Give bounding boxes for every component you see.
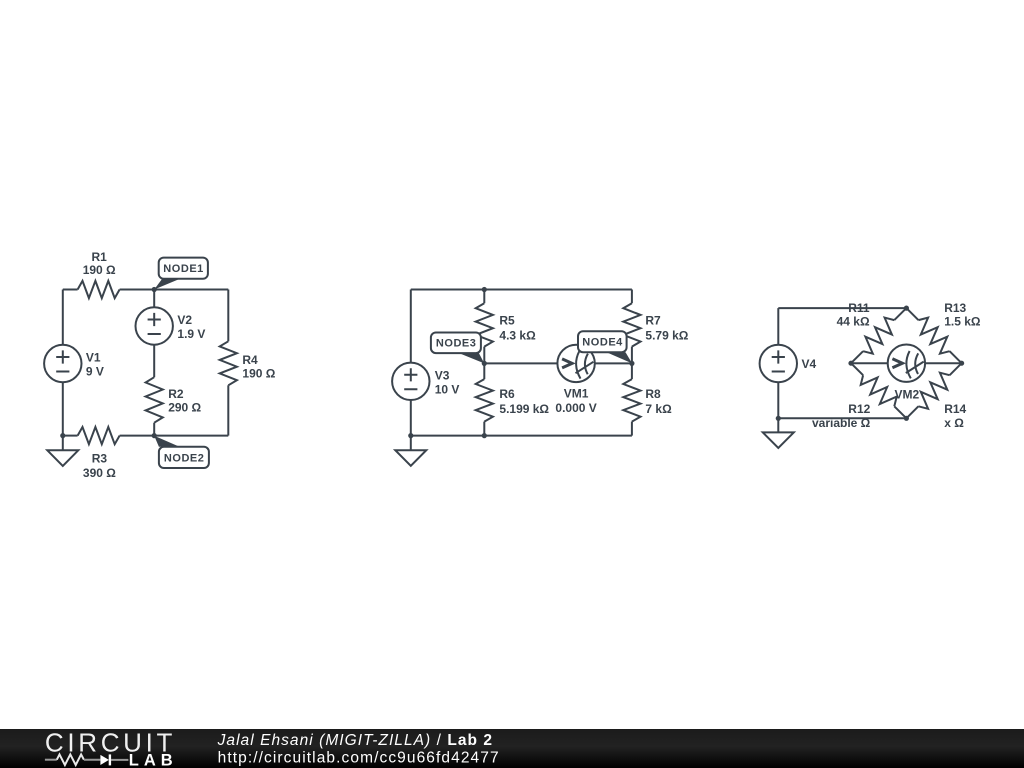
resistor R2 (146, 377, 163, 423)
resistor R13 (906, 308, 961, 363)
svg-text:0.000 V: 0.000 V (555, 401, 596, 415)
svg-text:190 Ω: 190 Ω (242, 367, 275, 381)
svg-text:NODE1: NODE1 (163, 263, 203, 275)
wire (777, 308, 779, 345)
svg-text:4.3 kΩ: 4.3 kΩ (499, 329, 536, 343)
svg-text:5.199 kΩ: 5.199 kΩ (499, 402, 549, 416)
logo resistor glyph (45, 759, 57, 761)
label R14 value (944, 402, 966, 430)
label V3 value (435, 368, 460, 396)
wire (631, 347, 633, 380)
voltmeter VM2 (888, 345, 925, 382)
svg-text:V3: V3 (435, 368, 450, 382)
voltage source V1 (44, 345, 81, 382)
resistor R7 (623, 303, 640, 346)
label R4 value (242, 353, 275, 380)
label R12 value (812, 402, 871, 430)
resistor R8 (623, 379, 640, 422)
wire (63, 289, 78, 291)
svg-text:R8: R8 (645, 387, 661, 401)
wire (631, 422, 633, 436)
node dot: bridge bottom node (904, 416, 909, 421)
svg-text:10 V: 10 V (435, 382, 460, 396)
wire (631, 290, 633, 304)
footer bar (0, 729, 1024, 768)
svg-text:variable Ω: variable Ω (812, 416, 871, 430)
wire (227, 385, 229, 435)
node dot: junction NODE3 (482, 361, 487, 366)
wire (411, 435, 632, 437)
label R1 value (83, 250, 116, 277)
wire (595, 362, 632, 364)
node label NODE1 (154, 258, 208, 290)
svg-text:NODE4: NODE4 (582, 337, 623, 349)
wire (778, 307, 906, 309)
wire (63, 435, 78, 437)
node dot: junction NODE4 (629, 361, 634, 366)
svg-text:R6: R6 (499, 387, 515, 401)
label VM1 value (555, 387, 596, 416)
svg-text:R13: R13 (944, 301, 966, 315)
voltage source V2 (136, 307, 173, 344)
voltmeter VM1 (557, 345, 594, 382)
wire (483, 422, 485, 436)
resistor R5 (476, 303, 493, 346)
svg-text:R1: R1 (92, 250, 108, 264)
node label NODE3 (431, 333, 484, 364)
node dot: bridge left node (848, 361, 853, 366)
label V2 value (177, 313, 205, 341)
resistor R6 (476, 379, 493, 422)
wire (62, 382, 64, 435)
node dot: bridge right node (959, 361, 964, 366)
svg-text:R4: R4 (242, 353, 258, 367)
node dot: junction at ground (408, 433, 413, 438)
wire (62, 290, 64, 345)
wire (153, 345, 155, 378)
wire (120, 289, 229, 291)
ground (47, 436, 78, 466)
svg-text:NODE2: NODE2 (164, 452, 204, 464)
wire (778, 417, 906, 419)
wire (483, 347, 485, 380)
node dot: bridge top node (904, 306, 909, 311)
label R7 value (645, 313, 688, 342)
label R11 value (837, 301, 870, 328)
svg-text:390 Ω: 390 Ω (83, 466, 116, 480)
resistor R4 (220, 341, 237, 385)
svg-text:R11: R11 (848, 301, 870, 315)
svg-text:R14: R14 (944, 402, 966, 416)
svg-text:190 Ω: 190 Ω (83, 263, 116, 277)
wire (410, 290, 412, 363)
svg-text:R2: R2 (168, 387, 184, 401)
label R13 value (944, 301, 981, 328)
svg-text:5.79 kΩ: 5.79 kΩ (645, 329, 688, 343)
svg-text:NODE3: NODE3 (436, 338, 476, 350)
wire (153, 290, 155, 308)
label R3 value (83, 452, 116, 480)
label R2 value (168, 387, 201, 415)
wire (777, 382, 779, 418)
wire (227, 290, 229, 342)
node dot: junction (482, 433, 487, 438)
resistor R11 (851, 308, 906, 363)
wire (153, 423, 155, 436)
svg-text:44 kΩ: 44 kΩ (837, 314, 870, 328)
svg-text:1.5 kΩ: 1.5 kΩ (944, 314, 981, 328)
wire (925, 362, 962, 364)
svg-text:VM1: VM1 (564, 387, 589, 401)
wire (410, 400, 412, 436)
label V1 value (86, 351, 104, 379)
voltage source V3 (392, 363, 429, 400)
logo diode glyph (100, 754, 128, 765)
node dot: junction at ground (776, 416, 781, 421)
svg-text:1.9 V: 1.9 V (177, 327, 205, 341)
svg-text:R12: R12 (848, 402, 870, 416)
svg-text:9 V: 9 V (86, 364, 104, 378)
svg-text:VM2: VM2 (895, 388, 920, 402)
svg-text:LAB: LAB (129, 751, 173, 768)
label R8 value (645, 387, 672, 416)
node label NODE4 (578, 331, 632, 363)
wire (484, 362, 557, 364)
wire (851, 362, 888, 364)
svg-text:R3: R3 (92, 452, 108, 466)
node dot: junction at ground (60, 433, 65, 438)
wire (120, 435, 229, 437)
node dot: junction NODE1 (152, 287, 157, 292)
wire (411, 289, 632, 291)
node dot: junction NODE2 (152, 433, 157, 438)
svg-text:7 kΩ: 7 kΩ (645, 402, 672, 416)
svg-text:V4: V4 (802, 357, 817, 371)
svg-text:V2: V2 (177, 313, 192, 327)
svg-text:290 Ω: 290 Ω (168, 400, 201, 414)
svg-text:http://circuitlab.com/cc9u66fd: http://circuitlab.com/cc9u66fd42477 (218, 749, 499, 766)
resistor R12 (851, 363, 906, 418)
voltage source V4 (760, 345, 797, 382)
node dot: junction (482, 287, 487, 292)
ground (395, 436, 426, 466)
node label NODE2 (154, 436, 209, 468)
svg-text:R5: R5 (499, 313, 515, 327)
resistor R1 (78, 281, 120, 298)
svg-text:V1: V1 (86, 351, 101, 365)
wire (483, 290, 485, 304)
svg-text:R7: R7 (645, 313, 661, 327)
svg-text:Jalal Ehsani (MIGIT-ZILLA) / L: Jalal Ehsani (MIGIT-ZILLA) / Lab 2 (217, 732, 493, 749)
label R5 value (499, 313, 536, 342)
ground (763, 418, 794, 448)
label R6 value (499, 387, 549, 416)
resistor R14 (906, 363, 961, 418)
svg-text:x Ω: x Ω (944, 416, 964, 430)
resistor R3 (78, 427, 120, 444)
